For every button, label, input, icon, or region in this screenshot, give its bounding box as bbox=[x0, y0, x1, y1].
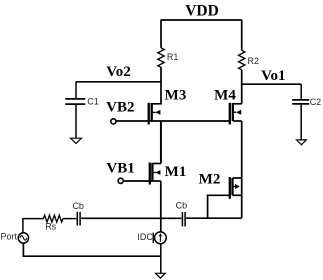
wire Vo1 bbox=[242, 83, 302, 85]
wire junction to IDC bbox=[160, 218, 162, 232]
wire M1 source down to input junction bbox=[160, 181, 162, 218]
resistor Rs bbox=[43, 215, 62, 222]
ground (C1) bbox=[71, 138, 82, 143]
svg-text:Vo2: Vo2 bbox=[106, 64, 130, 80]
transistor M4 bbox=[214, 87, 242, 124]
resistor R1 bbox=[158, 48, 164, 68]
wire VDD to R1 bbox=[160, 20, 162, 48]
wire Rs to Cb1 bbox=[63, 218, 76, 220]
wire Vo2 node to M3 drain bbox=[152, 67, 161, 104]
wire Cb1 to junction bbox=[81, 217, 161, 219]
source Port bbox=[18, 233, 28, 243]
wire M1 drain up bbox=[160, 121, 162, 164]
svg-text:M2: M2 bbox=[199, 171, 221, 187]
svg-text:Port: Port bbox=[1, 231, 18, 241]
transistor M3 bbox=[149, 87, 187, 124]
wire VDD rail bbox=[161, 19, 242, 21]
svg-text:VB1: VB1 bbox=[106, 160, 134, 176]
wire R2 top bbox=[241, 20, 243, 51]
wire Vo2 bbox=[76, 81, 161, 83]
wire IDC to ground bbox=[160, 244, 162, 274]
svg-text:Rs: Rs bbox=[45, 221, 56, 231]
capacitor Cb (right) bbox=[181, 212, 183, 227]
wire M4 source to M2 drain (middle right vertical) bbox=[241, 121, 243, 218]
current source IDC bbox=[155, 232, 167, 244]
transistor M2 bbox=[199, 171, 242, 199]
svg-text:M4: M4 bbox=[214, 87, 236, 103]
wire junction to Cb right bbox=[161, 217, 182, 219]
capacitor C1 bbox=[75, 82, 77, 99]
svg-text:Cb: Cb bbox=[72, 201, 84, 211]
capacitor C2 bbox=[300, 84, 302, 100]
wire M2 source elbow to input wire bbox=[186, 217, 242, 219]
wire M3 source to M1 drain bbox=[160, 121, 162, 164]
svg-text:IDC: IDC bbox=[137, 232, 153, 242]
svg-text:R2: R2 bbox=[248, 56, 260, 66]
wire C2 to ground bbox=[300, 104, 302, 140]
wire Port to ground rail bbox=[23, 243, 160, 256]
svg-text:VB2: VB2 bbox=[106, 100, 134, 116]
svg-text:C1: C1 bbox=[87, 96, 99, 106]
wire Port to Rs bbox=[23, 219, 44, 233]
wire VB1 to M1 gate bbox=[123, 180, 152, 182]
resistor R2 bbox=[239, 50, 245, 70]
svg-text:Vo1: Vo1 bbox=[261, 68, 285, 84]
ground (C2) bbox=[297, 140, 307, 145]
terminal VB2 bbox=[111, 119, 116, 124]
wire R2 to Vo1 node bbox=[241, 70, 243, 104]
terminal VB1 bbox=[118, 178, 123, 183]
transistor M1 bbox=[150, 163, 187, 185]
svg-text:C2: C2 bbox=[310, 97, 322, 107]
wire M2 gate loop bbox=[208, 195, 230, 218]
capacitor Cb (left) bbox=[76, 212, 78, 226]
wire C1 to ground bbox=[75, 104, 77, 138]
svg-text:R1: R1 bbox=[167, 52, 179, 62]
svg-text:VDD: VDD bbox=[185, 3, 219, 20]
svg-text:M3: M3 bbox=[165, 87, 187, 103]
svg-text:Cb: Cb bbox=[176, 200, 188, 210]
ground (IDC) bbox=[156, 273, 166, 278]
svg-text:M1: M1 bbox=[165, 164, 187, 180]
wire VB2 to gates of M3 and M4 bbox=[116, 120, 230, 122]
